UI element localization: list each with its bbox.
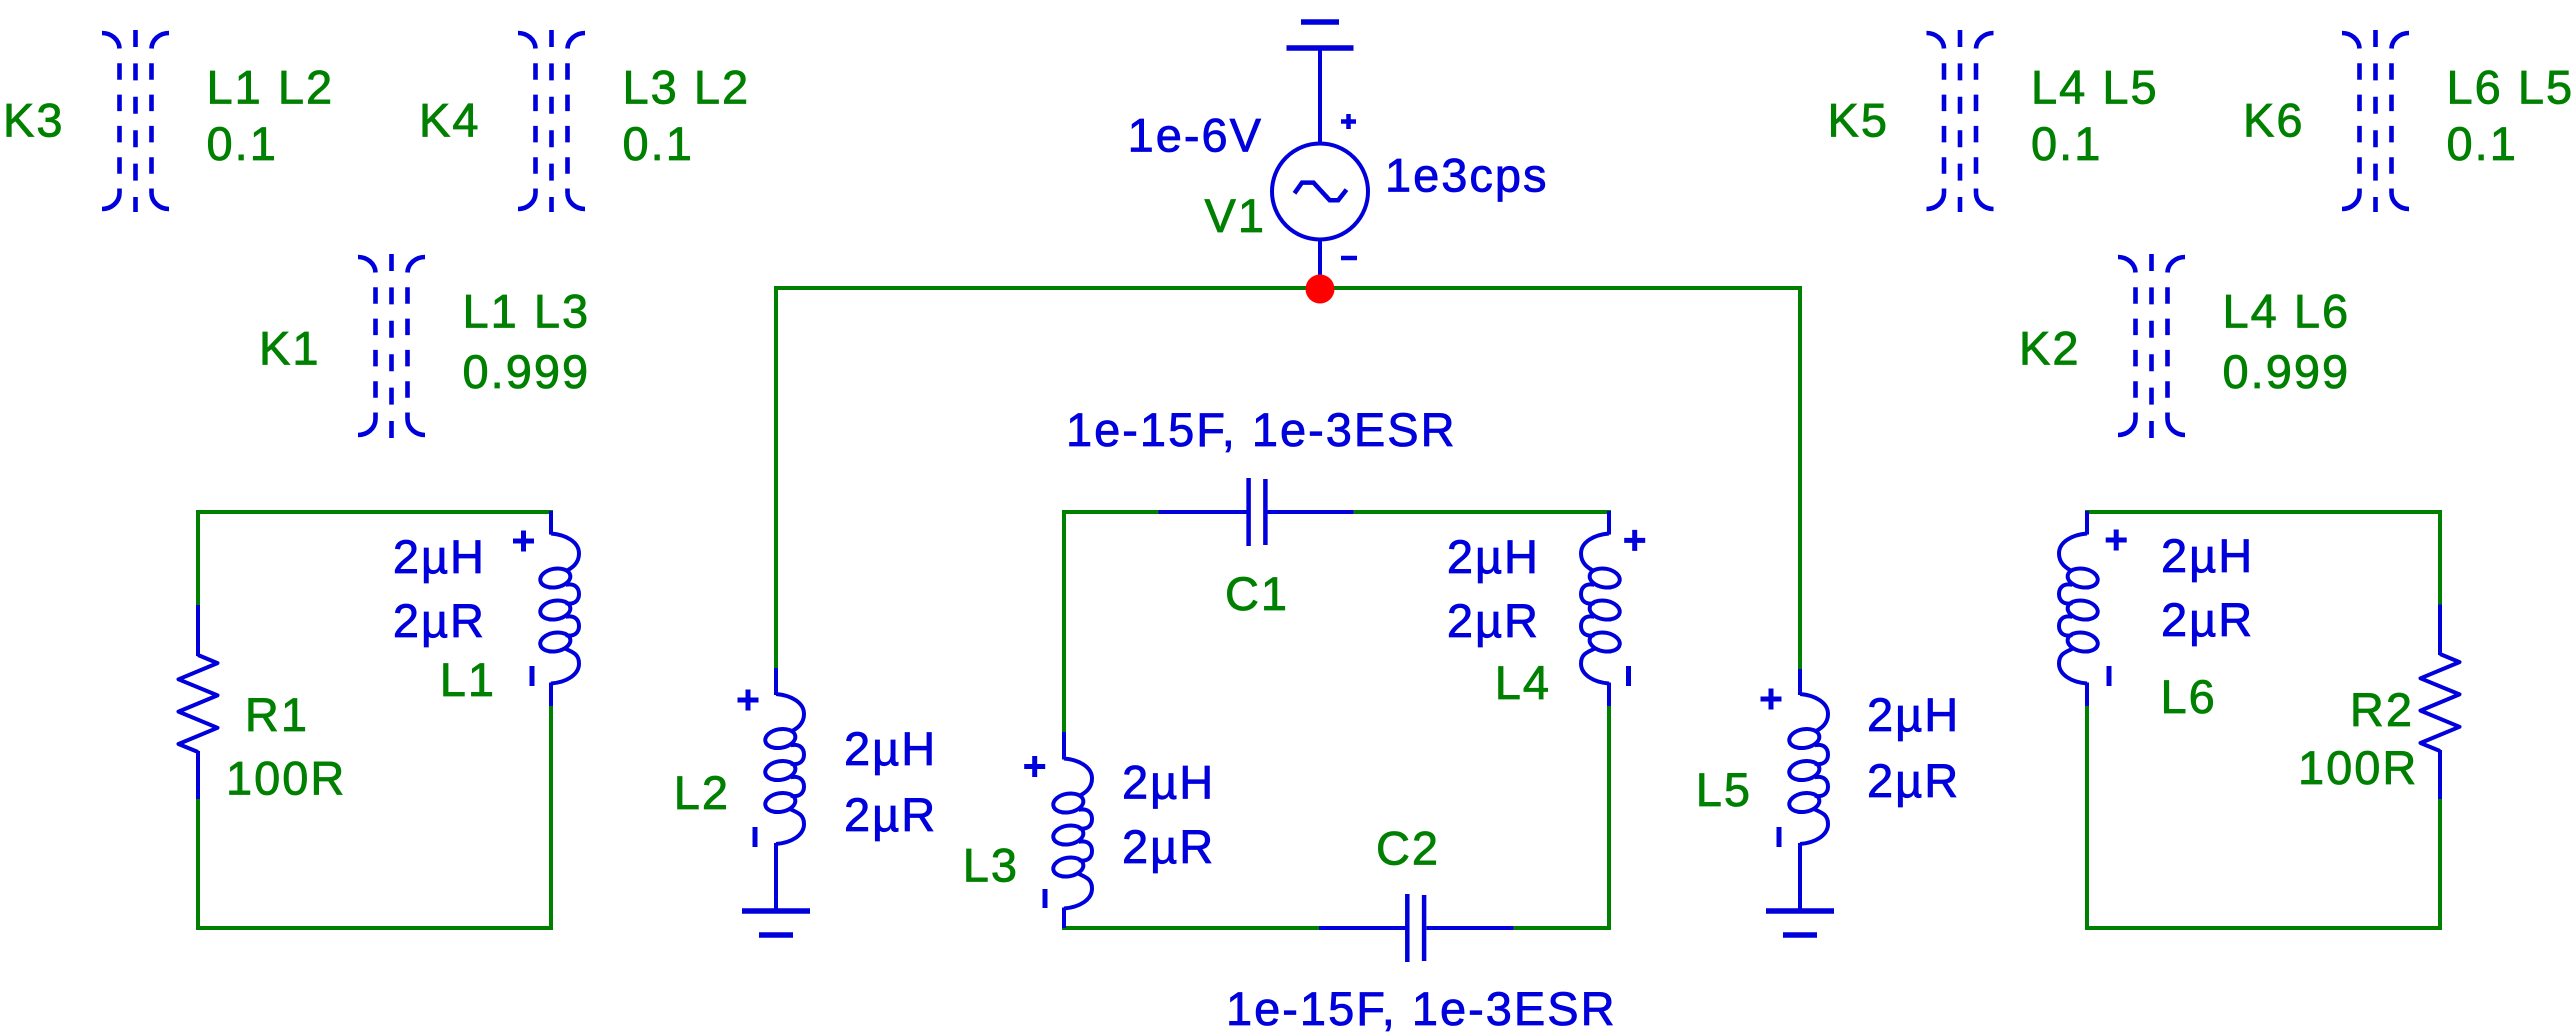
svg-text:100R: 100R xyxy=(2298,741,2418,794)
coupling K3 symbol xyxy=(102,30,169,212)
svg-text:L2: L2 xyxy=(674,766,730,819)
svg-text:0.1: 0.1 xyxy=(2031,117,2102,170)
svg-text:K3: K3 xyxy=(3,94,65,147)
coupling K2 symbol xyxy=(2118,254,2185,438)
inductor L3 top lead xyxy=(1062,732,1066,760)
wire center bottom left segment xyxy=(1062,926,1319,930)
wire left loop left upper xyxy=(196,510,200,605)
capacitor C1 plates xyxy=(1249,478,1266,546)
svg-text:L1: L1 xyxy=(440,653,496,706)
L5 minus polarity tick xyxy=(1777,827,1782,847)
wire center left upper xyxy=(1062,510,1066,733)
svg-text:1e-6V: 1e-6V xyxy=(1128,109,1263,162)
wire center top right segment xyxy=(1354,510,1611,514)
C2 left lead xyxy=(1319,926,1406,930)
svg-text:K1: K1 xyxy=(259,322,321,375)
R1 top lead xyxy=(196,605,200,656)
wire left loop bottom xyxy=(196,926,553,930)
svg-text:2µH: 2µH xyxy=(1122,756,1215,809)
svg-text:1e-15F, 1e-3ESR: 1e-15F, 1e-3ESR xyxy=(1066,403,1457,456)
L3 minus polarity tick xyxy=(1043,889,1048,908)
inductor L3 bottom lead xyxy=(1062,908,1066,929)
svg-text:2µH: 2µH xyxy=(1867,688,1960,741)
L2 minus polarity tick xyxy=(753,827,758,847)
inductor L6 top lead xyxy=(2085,511,2089,535)
svg-text:K5: K5 xyxy=(1828,94,1890,147)
inductor L1 top lead xyxy=(549,511,553,535)
inductor L2 coil xyxy=(764,694,804,844)
svg-text:2µH: 2µH xyxy=(2161,529,2254,582)
V1 minus mark xyxy=(1341,256,1357,261)
wire center bottom right segment xyxy=(1514,926,1611,930)
svg-text:0.1: 0.1 xyxy=(623,117,694,170)
wire center top left segment xyxy=(1062,510,1159,514)
svg-text:1e3cps: 1e3cps xyxy=(1385,149,1549,202)
svg-text:2µR: 2µR xyxy=(1122,820,1215,873)
svg-text:C1: C1 xyxy=(1225,567,1289,620)
L1 minus polarity tick xyxy=(530,666,535,686)
svg-text:K4: K4 xyxy=(419,94,481,147)
coupling K6 symbol xyxy=(2342,30,2409,212)
C2 right lead xyxy=(1427,926,1514,930)
inductor L4 top lead xyxy=(1607,511,1611,535)
L4 minus polarity tick xyxy=(1626,666,1631,686)
inductor L4 coil xyxy=(1581,534,1621,684)
inductor L4 bottom lead xyxy=(1607,683,1611,707)
svg-text:0.1: 0.1 xyxy=(2447,117,2518,170)
svg-text:2µR: 2µR xyxy=(2161,593,2254,646)
svg-text:0.999: 0.999 xyxy=(2223,345,2351,398)
resistor R1 zigzag xyxy=(179,655,218,752)
wire right drop to L5 xyxy=(1798,286,1802,670)
R1 bottom lead xyxy=(196,751,200,799)
L2 ground xyxy=(742,911,810,935)
svg-text:R1: R1 xyxy=(245,688,309,741)
wire right loop top xyxy=(2085,510,2442,514)
svg-text:L3: L3 xyxy=(963,839,1019,892)
inductor L2 bottom lead xyxy=(774,843,778,911)
wire left loop left lower xyxy=(196,799,200,930)
svg-text:2µR: 2µR xyxy=(393,594,486,647)
V1 bottom lead xyxy=(1318,240,1322,289)
svg-text:C2: C2 xyxy=(1376,822,1440,875)
svg-text:2µH: 2µH xyxy=(393,530,486,583)
inductor L3 coil xyxy=(1052,759,1092,909)
svg-text:K2: K2 xyxy=(2019,322,2081,375)
inductor L5 top lead xyxy=(1798,669,1802,695)
V1 top ground (inverted) xyxy=(1287,22,1354,48)
svg-text:0.999: 0.999 xyxy=(463,345,591,398)
svg-text:2µH: 2µH xyxy=(1447,530,1540,583)
L3 plus polarity mark xyxy=(1024,756,1045,777)
coupling K4 symbol xyxy=(518,30,585,212)
wire center right lower xyxy=(1607,705,1611,930)
svg-text:L4 L5: L4 L5 xyxy=(2031,61,2159,114)
L6 plus polarity mark xyxy=(2106,530,2127,551)
svg-text:R2: R2 xyxy=(2350,683,2414,736)
svg-text:L4: L4 xyxy=(1495,656,1551,709)
svg-text:L6 L5: L6 L5 xyxy=(2447,61,2572,114)
C1 right lead xyxy=(1268,510,1354,514)
svg-text:L6: L6 xyxy=(2161,670,2217,723)
V1 plus polarity mark xyxy=(1341,114,1356,129)
V1 sine symbol xyxy=(1295,183,1347,201)
inductor L1 coil xyxy=(539,534,579,684)
inductor L2 top lead xyxy=(774,668,778,695)
resistor R2 zigzag xyxy=(2421,654,2460,751)
svg-text:100R: 100R xyxy=(226,752,346,805)
inductor L5 coil xyxy=(1788,694,1828,844)
C1 left lead xyxy=(1159,510,1247,514)
capacitor C2 plates xyxy=(1407,894,1424,962)
coupling K1 symbol xyxy=(358,254,425,438)
svg-text:L1 L2: L1 L2 xyxy=(207,61,335,114)
L6 minus polarity tick xyxy=(2107,666,2112,686)
wire right loop right upper xyxy=(2438,510,2442,605)
svg-text:0.1: 0.1 xyxy=(207,117,278,170)
svg-text:2µR: 2µR xyxy=(1867,754,1960,807)
inductor L1 bottom lead xyxy=(549,683,553,707)
svg-text:2µR: 2µR xyxy=(844,788,937,841)
wire left drop to L2 xyxy=(774,286,778,669)
R2 top lead xyxy=(2438,605,2442,656)
R2 bottom lead xyxy=(2438,750,2442,799)
coupling K5 symbol xyxy=(1927,30,1994,212)
inductor L6 bottom lead xyxy=(2085,683,2089,707)
svg-text:L3 L2: L3 L2 xyxy=(623,61,751,114)
wire right loop bottom xyxy=(2085,926,2442,930)
svg-text:L4 L6: L4 L6 xyxy=(2223,285,2351,338)
svg-text:2µH: 2µH xyxy=(844,722,937,775)
svg-text:K6: K6 xyxy=(2243,94,2305,147)
wire main horizontal net xyxy=(774,286,1802,290)
L1 plus polarity mark xyxy=(513,531,534,552)
wire left loop right lower xyxy=(549,706,553,930)
voltage source V1 circle xyxy=(1272,144,1368,240)
L5 plus polarity mark xyxy=(1761,689,1782,710)
inductor L6 coil xyxy=(2059,534,2099,684)
L4 plus polarity mark xyxy=(1624,530,1645,551)
wire left loop top xyxy=(196,510,553,514)
junction node dot xyxy=(1306,275,1335,304)
svg-text:L5: L5 xyxy=(1696,763,1752,816)
svg-text:V1: V1 xyxy=(1205,189,1267,242)
inductor L5 bottom lead xyxy=(1798,843,1802,911)
L2 plus polarity mark xyxy=(738,690,759,711)
svg-text:2µR: 2µR xyxy=(1447,594,1540,647)
wire right loop right lower xyxy=(2438,799,2442,930)
L5 ground xyxy=(1766,911,1834,935)
svg-text:L1 L3: L1 L3 xyxy=(463,285,591,338)
wire right loop left lower xyxy=(2085,706,2089,930)
V1 top ground lead xyxy=(1318,48,1322,145)
svg-text:1e-15F, 1e-3ESR: 1e-15F, 1e-3ESR xyxy=(1226,982,1617,1032)
